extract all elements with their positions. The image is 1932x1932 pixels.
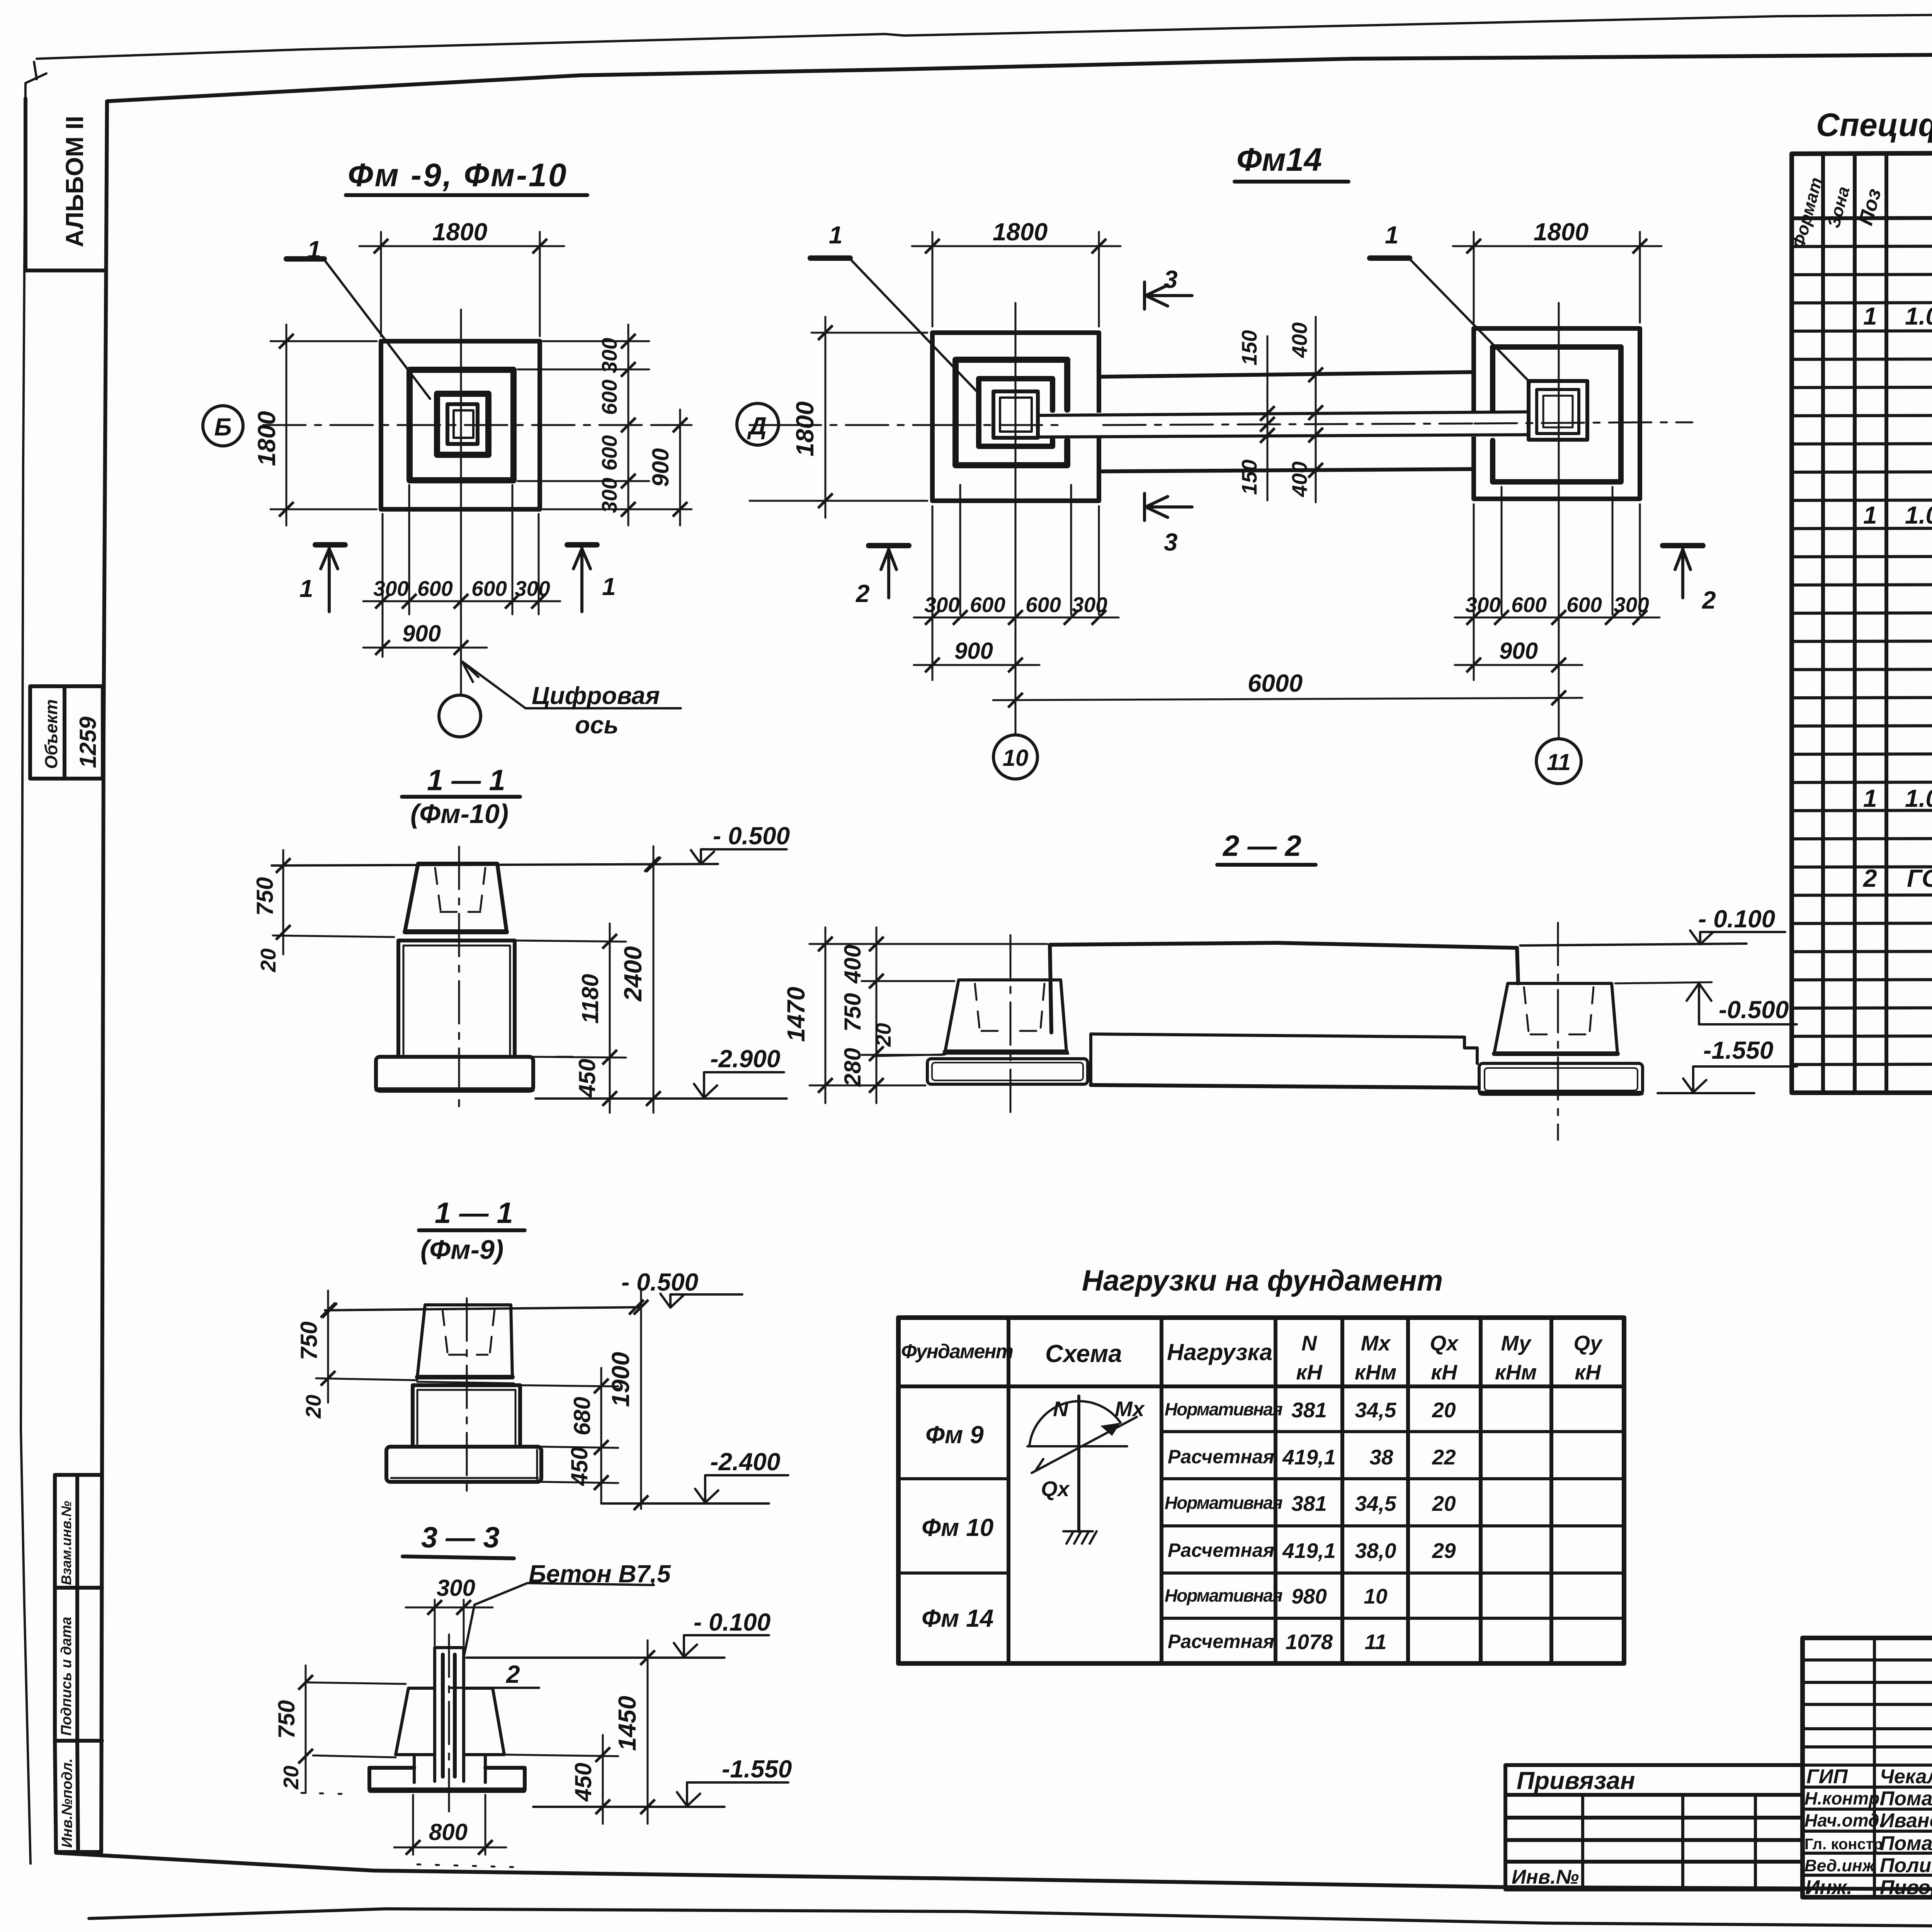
beam inner top line [1039,412,1527,415]
svg-text:1800: 1800 [791,401,819,456]
left outer dim line 1470 [825,927,827,1103]
left top dim line [912,245,1121,247]
horizontal axis right sq [1475,422,1692,423]
title block outer [1803,1638,1932,1897]
SPEC TABLE [1788,107,1932,1093]
schema arc [1029,1401,1121,1446]
left side dim ticks [818,325,833,340]
svg-text:34,5: 34,5 [1355,1398,1396,1422]
column body [435,1648,464,1781]
svg-text:Подпись и дата: Подпись и дата [58,1617,75,1736]
svg-text:1: 1 [1385,221,1399,249]
pier bottom thick fm9 [417,1375,512,1379]
pos 2 line [451,1687,539,1689]
mid beam right edge step [1464,1037,1477,1063]
svg-text:1: 1 [829,221,843,249]
mid beam left edge [1089,1034,1092,1085]
svg-text:381: 381 [1291,1492,1327,1515]
1900 ticks [634,1300,648,1315]
right slab bottom thick [1481,1091,1641,1095]
pier bottom thick [405,930,507,934]
left dim ticks [279,334,294,349]
svg-text:1: 1 [299,575,313,602]
dim 6000 line [993,698,1582,700]
right foundation step square 2 [1493,347,1621,482]
svg-text:-1.550: -1.550 [722,1755,792,1783]
-1.550 flag [677,1782,788,1806]
beam inner bottom line [1039,435,1527,437]
right dim ticks [621,334,636,349]
left slab inner [932,1063,1083,1080]
title line [402,795,520,799]
right dim ticks [602,934,617,949]
right dim 450 line [602,1735,604,1824]
top dim ticks [374,239,388,253]
svg-text:11: 11 [1547,749,1571,775]
bottom ref line -2.400 [601,1502,769,1505]
paper left edge [21,83,31,1864]
spec column lines [1823,152,1932,1093]
svg-text:300: 300 [1072,593,1107,617]
right dim line 680-450 [600,1368,602,1503]
svg-text:2: 2 [1702,586,1716,614]
svg-text:10: 10 [1003,745,1029,771]
left top dim ticks [925,239,940,253]
slab bottom thick [377,1087,532,1092]
mid beam bottom [1091,1085,1477,1088]
left dim line [282,850,284,954]
1450 ticks [640,1650,655,1665]
dim 800 line [394,1847,506,1849]
row lines col1 [898,1479,1009,1573]
svg-text:кНм: кНм [1495,1360,1537,1384]
socket dashed right [480,868,485,910]
bottom dim line 900 [363,647,487,649]
bottom dotted [301,1793,348,1794]
svg-text:Нормативная: Нормативная [1165,1585,1283,1605]
bottom dim 900 ticks [375,640,390,655]
title line [419,1228,525,1232]
svg-text:3: 3 [1164,265,1178,293]
TITLE BLOCK [1505,1638,1932,1899]
svg-text:300: 300 [515,577,550,600]
svg-text:- 0.100: - 0.100 [1698,905,1775,933]
svg-text:600: 600 [1026,593,1061,617]
svg-text:1 — 1: 1 — 1 [427,764,505,797]
svg-text:N: N [1053,1397,1069,1421]
svg-text:280: 280 [840,1048,866,1087]
svg-text:Нагрузки на фундамент: Нагрузки на фундамент [1082,1264,1443,1297]
mid step [396,1755,504,1782]
svg-text:Фм -9, Фм-10: Фм -9, Фм-10 [348,157,568,193]
dim 300 ext [435,1600,464,1645]
450 ext [506,1755,618,1807]
pos 1 left leader [850,259,977,391]
schema diag arrowhead [1036,1459,1048,1471]
table outer [898,1318,1624,1663]
elev -2.400 flag [695,1475,788,1503]
svg-text:300: 300 [597,338,621,373]
right bottom 900 ticks [1466,658,1481,672]
dim 2400 ticks [646,857,661,872]
pier trapezoid [417,1305,512,1377]
albom II box [26,99,104,270]
beam dim outer ticks [1308,367,1323,382]
left bottom ext lines [932,485,1099,735]
big block top line [1050,943,1517,948]
svg-text:Фм 14: Фм 14 [922,1604,993,1632]
socket dashed [442,1309,495,1355]
svg-text:Вед.инж: Вед.инж [1804,1856,1876,1875]
svg-text:800: 800 [429,1819,468,1845]
big block left edge [1050,945,1051,1032]
inv podl box [55,1741,102,1852]
row lines [1792,245,1932,1065]
svg-text:Поз: Поз [1854,186,1886,228]
slab [369,1768,525,1789]
schema ground [1063,1531,1097,1544]
right dim 1450 line [647,1640,649,1824]
ref line -0.100 [466,1656,724,1659]
svg-text:Б: Б [214,413,231,441]
svg-text:600: 600 [1566,593,1602,617]
row lines in nagruzka-value cols [1162,1432,1624,1618]
left ext top [306,1682,406,1684]
paper bottom edge [89,1909,1932,1931]
SECTION 1-1 FM9 [296,1197,788,1510]
svg-text:900: 900 [648,448,673,487]
right dim line 2400 [653,846,655,1113]
frame top border [107,55,1932,101]
svg-text:Расчетная: Расчетная [1168,1631,1274,1652]
beam opening in right square [1468,411,1501,437]
section mark 1 right arrow [573,546,590,612]
svg-text:- 0.500: - 0.500 [621,1268,698,1296]
slab bottom thick [370,1788,524,1793]
svg-text:2 — 2: 2 — 2 [1222,830,1301,862]
svg-text:Qх: Qх [1430,1331,1459,1355]
section mark 3 bottom [1145,493,1192,520]
svg-text:1450: 1450 [613,1696,641,1751]
top dim 1800 extension lines [381,232,540,336]
dim 300 line [406,1607,493,1609]
right dim line 300-600 [628,325,629,526]
svg-text:900: 900 [954,638,993,664]
right bottom dim line [1455,617,1660,619]
slab inner right [391,1450,538,1479]
450 ticks [595,1747,610,1762]
left slab outer [927,1059,1088,1084]
left vertical center line [1015,303,1017,669]
svg-text:Пиворова: Пиворова [1880,1876,1932,1899]
svg-text:1800: 1800 [253,411,281,466]
pos 1 leader [324,260,430,399]
svg-text:Привязан: Привязан [1517,1767,1635,1794]
right dim line 1180-450 [609,923,611,1113]
stamp row lines [1803,1765,1932,1875]
left ext lines [810,944,1047,1085]
top ref ticks [322,1303,337,1318]
top ref line [325,1307,641,1310]
center axis [448,1634,450,1811]
svg-text:1900: 1900 [607,1352,634,1407]
PLAN FM9-10 [203,157,692,739]
top dim 1800 line [359,245,564,247]
schema horizontal line [1027,1445,1127,1447]
svg-text:Н.контр.: Н.контр. [1804,1788,1884,1808]
joint line 20 [273,935,394,937]
bottom dim ticks 1 [375,594,390,609]
beam outer top line [1099,372,1474,377]
svg-text:ГОСТ 23279-85: ГОСТ 23279-85 [1907,864,1932,892]
right bottom ext lines [1474,487,1640,739]
left pier joint lines [876,1054,1068,1056]
trapezoid pier [396,1688,504,1755]
left pier socket dashed [975,984,1044,1031]
-1.550 flag [1683,1066,1797,1092]
elev -0.500 flag [660,1294,742,1308]
right ref line -0.500 ext [1615,982,1712,983]
left pier center line [1010,935,1012,1115]
pos 1 left bar [810,255,850,261]
horizontal axis through left sq [932,424,1066,426]
section mark 3 top [1145,282,1192,309]
left dim ticks [276,925,291,940]
podpis data box [55,1588,102,1741]
right dim 900 ticks [673,418,687,432]
section mark 2 right arrow [1675,547,1690,598]
section mark 2 left [869,543,909,548]
left bottom 900 ticks [925,658,940,672]
center axis [458,847,460,1108]
dim 6000 ticks [1008,693,1023,707]
svg-text:419,1: 419,1 [1282,1539,1336,1563]
foundation outer square [381,341,540,509]
inner ticks [869,937,884,951]
svg-text:1: 1 [1863,784,1877,812]
svg-text:Qх: Qх [1041,1477,1070,1501]
schema vertical line [1077,1396,1080,1531]
svg-text:29: 29 [1432,1539,1456,1563]
beam dim line inner [1267,336,1269,500]
svg-text:10: 10 [1364,1584,1388,1608]
svg-text:Поликарпова: Поликарпова [1880,1854,1932,1877]
left pier trapezoid [945,980,1066,1051]
slab outer [376,1057,533,1091]
svg-text:1259: 1259 [75,716,101,768]
right ticks [594,1379,609,1393]
svg-text:11: 11 [1364,1630,1386,1654]
right ext lines [520,1385,618,1483]
title underline [1235,180,1349,184]
svg-text:Фм 9: Фм 9 [925,1421,984,1449]
svg-text:450: 450 [574,1059,600,1098]
svg-text:-2.400: -2.400 [710,1448,780,1476]
paper left edge tick top [26,62,46,83]
top ref line -0.500 [272,864,718,866]
block outer [398,940,515,1057]
svg-text:Нормативная: Нормативная [1165,1399,1283,1419]
svg-text:Фундамент: Фундамент [901,1340,1013,1363]
svg-text:-1.550: -1.550 [1703,1036,1773,1064]
pos 1 bar [286,256,324,262]
column inner square [454,410,473,438]
rebar lines [443,1655,455,1777]
svg-text:450: 450 [566,1447,592,1486]
right ext lines [515,940,626,1058]
svg-text:Цифровая: Цифровая [532,682,660,709]
svg-text:20: 20 [301,1395,325,1419]
left foundation step square 3 [979,379,1053,446]
left foundation outer square [932,333,1099,501]
left bottom 900 line [914,664,1039,666]
svg-text:680: 680 [569,1397,595,1435]
svg-text:кН: кН [1296,1360,1323,1384]
svg-text:Чекалов: Чекалов [1880,1765,1932,1788]
svg-text:- 0.500: - 0.500 [713,822,790,850]
left dim line [327,1291,329,1403]
beam dim line outer [1315,317,1317,502]
svg-text:1800: 1800 [432,218,487,246]
svg-text:Схема: Схема [1045,1340,1122,1367]
joint 20 line [316,1378,514,1383]
svg-text:Объект: Объект [41,699,61,769]
column section square [447,404,478,444]
left dim 1800 extension lines [270,341,377,509]
svg-text:34,5: 34,5 [1355,1492,1396,1515]
left column section square [993,391,1038,438]
svg-text:Мх: Мх [1115,1397,1145,1421]
big block right edge [1517,948,1518,983]
left column inner square [1000,398,1032,432]
SECTION 2-2 [782,830,1797,1140]
svg-text:300: 300 [437,1575,475,1601]
svg-text:АЛЬБОМ II: АЛЬБОМ II [61,116,88,247]
svg-text:1470: 1470 [782,987,810,1042]
svg-text:400: 400 [1287,461,1311,497]
svg-text:Нагрузка: Нагрузка [1167,1339,1272,1365]
right dim line 1900 [640,1291,642,1509]
header bottom line [1792,216,1932,218]
svg-text:Фм14: Фм14 [1236,141,1322,178]
right column inner square [1537,389,1579,434]
left side dim line [825,317,827,518]
svg-text:Зона: Зона [1823,184,1853,230]
tsifrovaya os leader [462,662,681,708]
beam outer bottom line [1099,469,1474,471]
svg-text:381: 381 [1291,1398,1327,1422]
bottom ref line -2.900 [536,1097,787,1100]
LOADS TABLE [898,1264,1624,1663]
svg-text:3 — 3: 3 — 3 [421,1521,500,1554]
svg-text:(Фм-9): (Фм-9) [420,1235,503,1265]
svg-text:1.020-1/83 вып.1-1: 1.020-1/83 вып.1-1 [1905,302,1932,330]
socket dashed left [435,868,440,910]
ref line -1.550 [533,1806,724,1808]
right foundation outer square [1474,328,1640,499]
right slab inner [1485,1068,1638,1090]
svg-text:кНм: кНм [1355,1360,1396,1384]
left bottom ticks [925,610,940,625]
svg-text:20: 20 [279,1765,303,1790]
svg-text:1180: 1180 [577,974,603,1024]
svg-text:-2.900: -2.900 [710,1045,780,1073]
left ticks [298,1675,313,1690]
svg-text:750: 750 [840,993,866,1032]
beton underline and leader [464,1583,654,1658]
svg-text:300: 300 [1465,593,1501,617]
left foundation step square 2 [956,360,1067,465]
bottom ext lines [383,485,539,696]
pos 1 right leader [1410,259,1530,383]
frame bottom border [56,1853,1932,1892]
section mark 1 left arrow [321,546,338,612]
block inner [417,1390,515,1444]
section mark 1 right [567,542,597,548]
svg-text:400: 400 [840,945,866,984]
ground dotted [417,1864,514,1867]
left dim 1800 line [286,325,287,526]
title underline [346,193,587,197]
svg-text:150: 150 [1237,330,1261,366]
axis circle D [737,403,779,445]
spec outer border [1792,151,1932,1093]
right dim 900 line [679,410,681,526]
svg-text:600: 600 [597,435,621,471]
svg-text:980: 980 [1291,1584,1327,1608]
svg-text:кН: кН [1431,1360,1458,1384]
svg-text:600: 600 [597,379,621,415]
svg-text:(Фм-10): (Фм-10) [410,799,509,829]
svg-text:2: 2 [855,580,870,607]
svg-text:ГИП: ГИП [1806,1765,1848,1788]
svg-text:1: 1 [1863,302,1877,330]
joint 20 line [313,1755,396,1757]
svg-text:Гл. констр: Гл. констр [1804,1836,1883,1853]
SECTION 1-1 FM10 [252,764,790,1113]
svg-text:Мх: Мх [1361,1331,1391,1355]
tsifrovaya os circle [439,695,481,737]
svg-text:Инв.№: Инв.№ [1512,1866,1579,1888]
svg-text:- 0.100: - 0.100 [694,1608,770,1636]
object 1259 box [30,686,103,779]
svg-text:Му: Му [1501,1331,1531,1355]
right bottom ticks [1466,610,1481,625]
svg-text:Фм 10: Фм 10 [922,1514,993,1541]
pier trapezoid [405,864,507,931]
foundation step square 3 [437,394,488,455]
svg-text:кН: кН [1575,1360,1601,1384]
svg-text:300: 300 [373,577,409,600]
svg-text:6000: 6000 [1248,669,1303,697]
privyazan columns [1583,1795,1755,1889]
left side dim ext [811,333,927,501]
column lines [1009,1318,1551,1663]
svg-text:Взам.инв.№: Взам.инв.№ [58,1501,74,1585]
svg-text:20: 20 [256,948,280,973]
svg-text:900: 900 [1499,638,1538,664]
svg-text:3: 3 [1164,528,1178,556]
horizontal axis line [263,424,657,426]
center axis [466,1298,468,1496]
svg-text:ось: ось [575,711,619,739]
svg-text:300: 300 [1614,593,1649,617]
svg-text:900: 900 [402,621,441,646]
frame left border [101,101,107,1852]
svg-text:1800: 1800 [993,218,1048,246]
left inner dim line [876,927,878,1103]
left dim line [305,1665,307,1793]
